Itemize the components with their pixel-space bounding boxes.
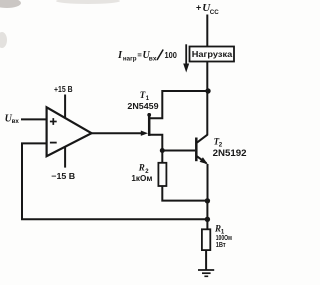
wire -15V supply lead [64, 146, 66, 167]
svg-text:вх: вх [149, 55, 157, 62]
transistor T1 (JFET 2N5459) channel bar [147, 113, 151, 136]
load box "Нагрузка" [190, 47, 235, 62]
svg-text:2N5192: 2N5192 [213, 148, 247, 158]
svg-text:1Вт: 1Вт [216, 242, 226, 249]
svg-text:2N5459: 2N5459 [127, 101, 158, 111]
svg-text:R: R [138, 163, 145, 173]
wire T1 drain lead [149, 91, 208, 118]
node +Ucc label [196, 2, 219, 16]
wire +Ucc lead [206, 15, 208, 48]
wire +15V supply lead [64, 95, 66, 118]
label Iнагр = Uвх / 100 [117, 50, 177, 63]
op-amp plus input marking [50, 118, 57, 125]
transistor T2 (2N5192) [196, 135, 208, 165]
svg-text:вх: вх [12, 118, 20, 125]
op-amp minus input marking [50, 142, 57, 144]
wire load rail (box bottom to T2 collector) [206, 62, 208, 136]
label T2 [214, 137, 223, 149]
svg-text:+: + [196, 2, 201, 12]
wire T2 emitter to junction [207, 164, 209, 201]
op-amp U1 triangle [47, 107, 92, 156]
resistor R2 body [158, 163, 166, 186]
svg-text:1кОм: 1кОм [131, 173, 152, 183]
label T1 [140, 90, 150, 102]
wire op-amp output to T1 gate with arrow [91, 131, 148, 136]
svg-text:100: 100 [165, 50, 178, 60]
wire R1 to ground [205, 250, 207, 270]
label R2 [138, 163, 150, 175]
svg-text:Нагрузка: Нагрузка [192, 49, 233, 59]
node emitter/R2 junction dot [205, 198, 210, 203]
scan smudge top-left [0, 0, 120, 48]
wire T1 source lead [149, 135, 162, 151]
svg-text:CC: CC [210, 9, 219, 16]
ground symbol [198, 270, 214, 276]
wire feedback to op-amp inverting input [22, 143, 207, 219]
wire rail between junctions down to R1 [206, 201, 208, 230]
resistor R1 body [202, 229, 210, 250]
svg-text:+15 В: +15 В [54, 84, 73, 94]
node feedback junction dot [205, 217, 210, 222]
wire R2 bottom to rail [162, 186, 207, 201]
node source/base junction dot [160, 148, 165, 153]
label R1 [214, 224, 225, 236]
svg-text:нагр: нагр [123, 56, 137, 63]
wire base wire to T2 [162, 150, 195, 152]
wire junction to R2 [161, 151, 163, 164]
svg-text:100Ом: 100Ом [216, 235, 232, 242]
load current arrow [183, 44, 189, 72]
node drain junction dot [205, 88, 210, 93]
svg-text:−15 В: −15 В [51, 171, 75, 181]
wire Uвх input [21, 118, 47, 120]
label Uвх [5, 113, 20, 124]
